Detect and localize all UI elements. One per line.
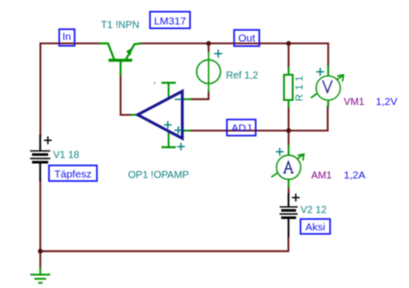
wire battery V1 bottom to ground junction <box>39 180 41 251</box>
wire ADJ junction to ammeter top <box>288 131 290 146</box>
svg-text:Out: Out <box>238 32 255 44</box>
ammeter AM1 <box>272 146 304 187</box>
voltage source Ref <box>197 52 221 92</box>
node Out <box>234 30 259 46</box>
wire ground stub <box>39 251 41 268</box>
plus sign of Ref <box>215 50 222 57</box>
node ADJ <box>227 120 256 136</box>
svg-text:': ' <box>154 81 156 92</box>
wire R11 top lead from Out junction <box>288 43 290 67</box>
svg-text:V2 12: V2 12 <box>301 205 328 216</box>
svg-text:AM1: AM1 <box>311 170 332 181</box>
wire R11 bottom to ADJ junction <box>288 107 290 130</box>
label LM317 <box>150 12 190 29</box>
svg-text:V1 18: V1 18 <box>53 150 80 161</box>
svg-text:VM1: VM1 <box>344 97 365 108</box>
svg-text:T1 !NPN: T1 !NPN <box>101 20 139 31</box>
voltmeter VM1 <box>312 66 344 106</box>
svg-text:R11: R11 <box>295 72 306 102</box>
svg-text:Ref 1,2: Ref 1,2 <box>226 70 259 81</box>
svg-text:1,2V: 1,2V <box>376 96 398 108</box>
battery V2 <box>280 194 299 236</box>
transistor T1 <box>100 43 140 74</box>
node label Tápfesz <box>49 165 97 181</box>
wire base of T1 to op-amp output <box>121 75 132 115</box>
wire right vertical to voltmeter top <box>327 43 329 66</box>
wire ref source top lead to Out junction <box>208 43 210 51</box>
svg-text:1,2A: 1,2A <box>344 169 366 181</box>
wire battery V2 bottom to ground rail <box>40 236 288 251</box>
wire ammeter bottom to battery V2 <box>288 187 290 194</box>
junction at ground <box>38 249 43 254</box>
svg-text:LM317: LM317 <box>154 16 186 28</box>
node label Aksi <box>301 219 331 234</box>
wire emitter to Out to right corner <box>140 42 328 44</box>
battery V1 <box>31 136 51 181</box>
op-amp OP1 <box>132 81 191 150</box>
svg-text:ADJ: ADJ <box>231 122 251 134</box>
wire ADJ net: op-amp + input to right, up to voltmeter bottom <box>190 106 328 130</box>
wire ref source bottom to op-amp inverting input <box>191 92 208 99</box>
node In <box>59 29 74 46</box>
svg-text:Tápfesz: Tápfesz <box>54 168 91 180</box>
svg-text:In: In <box>62 31 71 43</box>
wire top horizontal In to transistor <box>40 42 100 44</box>
junction at Out/Ref <box>206 41 211 46</box>
ground <box>31 268 49 283</box>
wire top-left vertical rail <box>39 43 41 135</box>
junction at Out/R11 <box>286 41 291 46</box>
svg-text:OP1 !OPAMP: OP1 !OPAMP <box>128 170 189 181</box>
svg-text:Aksi: Aksi <box>305 222 325 234</box>
resistor R11 <box>284 67 293 107</box>
junction at ADJ/R11/ammeter <box>286 128 291 133</box>
